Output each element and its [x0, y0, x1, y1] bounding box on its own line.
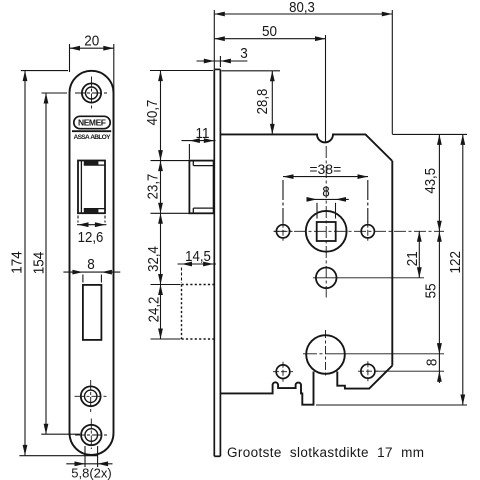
- screw hole middle outer: [81, 386, 101, 406]
- arrows 23,7: [158, 161, 163, 172]
- dimension 8 plate slot: [63, 272, 120, 282]
- arrows 32,4: [158, 213, 163, 224]
- dimension 12,6: [77, 216, 106, 225]
- screw hole middle inner: [85, 390, 97, 402]
- latch cutout outline: [78, 161, 105, 214]
- lock case bottom right chamfer: [337, 366, 392, 389]
- extension strip top left: [150, 70, 213, 72]
- dimension 8 follower square: [307, 199, 349, 218]
- svg-text:28,8: 28,8: [253, 89, 270, 115]
- svg-text:40,7: 40,7: [143, 100, 160, 126]
- top edge extension right: [392, 133, 467, 135]
- extension deadbolt top: [151, 284, 181, 286]
- left dimension chain line: [160, 71, 162, 339]
- svg-text:3: 3: [240, 45, 248, 62]
- svg-text:80,3: 80,3: [289, 0, 315, 15]
- extension latch top: [151, 160, 189, 162]
- dimension 154: [41, 93, 80, 434]
- svg-text:8: 8: [87, 256, 95, 273]
- follower circle: [306, 211, 347, 252]
- cylinder vertical centerline: [325, 330, 327, 378]
- svg-text:20: 20: [84, 33, 99, 50]
- cylinder horizontal centerline: [303, 353, 444, 355]
- left mounting circle crosshair: [274, 222, 293, 241]
- dimension 14,5: [178, 264, 217, 283]
- svg-text:8: 8: [424, 359, 441, 367]
- dimension 20: [70, 44, 114, 135]
- dimension =38=: [283, 177, 368, 223]
- svg-text:24,2: 24,2: [145, 297, 162, 323]
- arrows 55: [437, 231, 442, 242]
- deadbolt slot: [83, 285, 102, 340]
- svg-text:32,4: 32,4: [144, 246, 161, 272]
- extension deadbolt bottom: [151, 338, 181, 340]
- screw hole top outer: [82, 83, 101, 102]
- latch side view box: [189, 161, 213, 214]
- edge view faceplate strip right line: [219, 69, 221, 456]
- NEMEF logo stadium: [74, 116, 110, 128]
- cylinder circle: [306, 335, 345, 374]
- dimension 3: [197, 56, 248, 67]
- screw hole middle crosshair: [75, 380, 108, 413]
- svg-text:154: 154: [31, 252, 48, 275]
- left mounting circle: [276, 225, 289, 238]
- dimension 21: [418, 231, 420, 277]
- ASSA ABLOY separator line: [72, 130, 111, 132]
- dimension 174: [19, 71, 97, 456]
- lower circle horizontal centerline: [313, 277, 424, 279]
- extension latch bottom: [151, 212, 189, 214]
- dimension 28,8: [222, 71, 281, 135]
- right dimension line 43,5 55 8: [438, 134, 440, 383]
- dimension 80,3: [214, 10, 392, 134]
- right mounting circle vertical tick: [367, 222, 369, 241]
- vertical centerline through follower: [325, 146, 327, 298]
- edge view faceplate strip left line: [213, 69, 215, 456]
- bottom right screw crosshair: [358, 361, 378, 381]
- svg-text:NEMEF: NEMEF: [78, 118, 106, 128]
- svg-text:5,8(2x): 5,8(2x): [71, 466, 111, 480]
- screw hole bottom crosshair: [75, 419, 108, 450]
- latch side step top: [192, 161, 194, 166]
- svg-text:8: 8: [322, 184, 330, 201]
- svg-text:14,5: 14,5: [185, 247, 211, 264]
- arrows 40,7: [158, 71, 163, 82]
- svg-text:122: 122: [447, 251, 464, 274]
- screw circle extension right: [376, 370, 444, 372]
- latch face top band: [84, 161, 99, 166]
- svg-text:=38=: =38=: [309, 161, 341, 177]
- arrows 24,2: [158, 285, 163, 296]
- screw hole top crosshair: [75, 77, 108, 110]
- svg-text:11: 11: [196, 125, 210, 142]
- latch side step bottom: [192, 208, 194, 213]
- svg-text:174: 174: [9, 251, 26, 274]
- svg-text:43,5: 43,5: [421, 168, 438, 194]
- dimension 5,8(2x): [66, 446, 112, 467]
- svg-text:50: 50: [262, 23, 277, 40]
- faceplate outline: [70, 71, 114, 455]
- arrows 43,5: [437, 134, 442, 145]
- svg-text:Grootste slotkastdikte 17 m: Grootste slotkastdikte 17 mm: [227, 445, 424, 460]
- svg-text:ASSA ABLOY: ASSA ABLOY: [74, 134, 112, 141]
- dimension 122: [462, 134, 464, 405]
- bottom left screw circle: [276, 365, 290, 379]
- deadbolt side view dashed box: [182, 285, 214, 340]
- latch face bottom band: [84, 209, 99, 214]
- follower square: [317, 222, 336, 241]
- screw hole top inner: [86, 87, 98, 99]
- svg-text:55: 55: [423, 283, 440, 298]
- lock case bottom left with tab and lug: [220, 372, 313, 405]
- dimension 50: [214, 35, 325, 143]
- lock case top edge with notch: [220, 134, 392, 161]
- latch side inner top line: [193, 165, 213, 167]
- latch cutout inner bottom line: [84, 208, 105, 210]
- lock case right edge: [391, 161, 393, 366]
- arrows 8 right: [437, 343, 442, 354]
- latch side inner bottom line: [193, 207, 213, 209]
- latch cutout inner top line: [84, 164, 105, 166]
- lower circle: [316, 268, 337, 289]
- strip top cap: [214, 68, 220, 70]
- bottom left screw crosshair: [273, 362, 293, 382]
- svg-text:12,6: 12,6: [78, 228, 104, 245]
- screw hole bottom inner: [85, 429, 98, 442]
- latch cutout inner vertical line: [80, 161, 82, 214]
- strip bottom cap: [214, 455, 220, 457]
- svg-text:21: 21: [404, 251, 421, 266]
- right mounting circle: [361, 225, 374, 238]
- dimension 11: [182, 141, 216, 160]
- svg-text:23,7: 23,7: [144, 174, 161, 200]
- horizontal centerline through follower: [274, 230, 444, 232]
- bottom extension line: [316, 404, 467, 406]
- screw hole bottom outer: [81, 425, 101, 445]
- bottom right screw circle: [361, 364, 375, 378]
